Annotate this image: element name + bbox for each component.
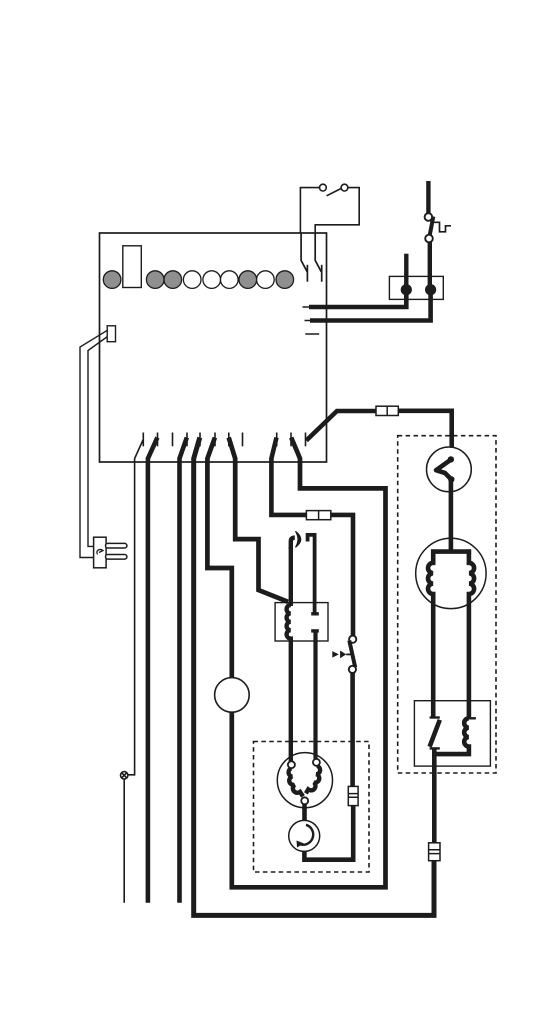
connector J1 on left edge of board — [107, 326, 115, 342]
control board box — [100, 233, 327, 462]
power supply line L1 (top right) — [426, 181, 430, 213]
terminal T7 (gray) — [239, 271, 257, 289]
fuse F2 — [306, 511, 330, 520]
terminal T2 (gray) — [146, 271, 164, 289]
relay contact bars — [311, 612, 319, 615]
compressor motor M1 circle — [416, 538, 486, 608]
junction dot left — [401, 284, 412, 295]
wire relay contact to fan — [313, 631, 317, 759]
junction dot right — [425, 284, 436, 295]
terminal T9 (gray) — [276, 271, 294, 289]
wire W7 (pin 7) to fan relay coil — [229, 438, 288, 602]
fan terminal left — [288, 761, 295, 768]
stub wire on board — [305, 333, 319, 335]
terminal T4 (white) — [183, 271, 201, 289]
start switch contact top — [430, 716, 440, 718]
fan terminal bottom — [301, 797, 308, 804]
thin wire below lamp — [123, 779, 125, 903]
wire W4 (pin 4, cut end) — [180, 438, 187, 903]
fan winding right — [306, 766, 320, 794]
fan group dashed box — [254, 742, 370, 873]
terminal block TB1 — [389, 276, 443, 299]
compressor group dashed box — [398, 436, 496, 773]
relay coil wire with plug arrow — [291, 538, 295, 549]
fan relay box K2 — [275, 603, 328, 641]
wire F1 to compressor overload — [398, 411, 451, 459]
wire fan to rotor — [302, 804, 307, 821]
terminal T3 (gray) — [164, 271, 182, 289]
relay coil — [287, 605, 291, 761]
lamp L2 (circle-X) — [121, 772, 128, 779]
wire F2 to fan switch — [331, 515, 353, 636]
wire OL1 to motor — [449, 478, 454, 552]
cabinet lamp L3 — [215, 678, 250, 713]
terminal T1 (gray) — [103, 271, 121, 289]
power plug P1 — [94, 537, 127, 568]
wire J1 to plug (inner) — [88, 337, 108, 547]
terminal T5 (white) — [203, 271, 221, 289]
fan motor M2 circle — [277, 753, 332, 808]
terminal T8 (white) — [257, 271, 275, 289]
terminal T6 (white) — [221, 271, 239, 289]
line wire (left, free end) — [404, 254, 408, 290]
thin wire to lamp (pin 1) — [128, 440, 143, 775]
stator right side with winding — [469, 549, 474, 718]
inline device R2 on fan branch — [348, 786, 358, 805]
wire left dot to board — [309, 290, 406, 307]
thermostat sensing element (step) — [434, 222, 451, 232]
wire J1 to plug (outer) — [80, 330, 108, 557]
fan winding left — [289, 768, 303, 796]
stator top bar — [431, 549, 471, 554]
thermostat lower contact — [425, 235, 433, 243]
wire start switch down — [432, 748, 437, 843]
start switch blade — [430, 720, 440, 747]
wire W9 (pin 9) to fuse F2 — [271, 438, 306, 515]
fan switch S3 — [349, 636, 356, 643]
fuse F1 — [376, 406, 398, 415]
wire W6 (pin 6) loop through lamp to pin 10 — [207, 438, 231, 678]
stator left side with winding — [428, 549, 433, 717]
thermostat switch S2 upper contact — [425, 213, 433, 221]
wire S3 down to fan device — [350, 673, 355, 786]
wire S2 to terminal block — [428, 242, 432, 290]
fan terminal right — [313, 759, 320, 766]
start winding coil — [465, 717, 476, 719]
start relay box (in compressor) — [414, 701, 490, 766]
relay contact wire with socket hook — [308, 535, 315, 613]
board bottom terminal pins — [143, 433, 305, 447]
inline device R1 on compressor return — [429, 843, 440, 861]
defrost timer switch S1 (top) — [300, 184, 359, 233]
relay block K1 (top-left rectangle on board) — [123, 246, 142, 288]
thermostat blade — [430, 217, 434, 237]
switch contact legs inside board — [301, 233, 322, 282]
rotor circle with rotation arrow — [289, 820, 320, 851]
wire W11 (pin 11) to fuse F1 — [306, 411, 376, 441]
wire W2 (pin 2, cut end) — [148, 438, 158, 903]
wire W5 (pin 5) to compressor return — [194, 438, 434, 916]
overload protector OL1 — [427, 447, 472, 492]
wire rotor to right leg — [304, 806, 353, 860]
wire right dot to board — [310, 290, 431, 321]
start switch contact bottom — [430, 747, 440, 749]
actuator arrow to S3 — [332, 651, 339, 658]
